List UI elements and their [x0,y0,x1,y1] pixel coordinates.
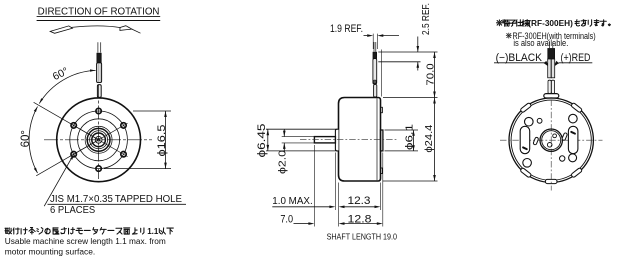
svg-text:JIS M1.7×0.35 TAPPED HOLE: JIS M1.7×0.35 TAPPED HOLE [50,194,182,205]
bolt circle [70,111,128,169]
middle: motor body side outline [339,98,381,182]
vent hole lower-right [569,154,577,162]
motor body outer circle [57,98,141,182]
dim phi6.1 arrows [413,130,415,151]
svg-text:ϕ6.45: ϕ6.45 [256,124,268,158]
vent hole upper-right [569,114,578,123]
ext lines phi6.45 [266,128,337,130]
small hole upper-left [537,118,542,123]
JP note terminals available [497,21,502,26]
leader arrow to black wire [544,62,547,65]
vertical centerline [98,85,100,180]
60deg arc upper [39,70,95,103]
middle lead-wire black tip [373,52,377,58]
case tab bottom right [381,168,383,174]
ext line wire black bottom [378,61,420,63]
left view lead-wire dashed stub [97,42,99,52]
ext line body edge up [380,50,382,97]
bearing circle thick [92,133,106,147]
ext vertical boss face [334,153,336,211]
right outer circle [509,98,593,182]
svg-text:ϕ2.0: ϕ2.0 [277,150,289,174]
tapped hole leader [44,159,71,207]
6 tapped holes on bolt circle [96,108,101,113]
ext line wire top [378,51,437,53]
ext vertical body face [338,183,340,227]
vent hole upper-left [525,117,534,126]
right vertical centerline [550,100,552,191]
left view lead-wire upper segment [97,63,102,83]
hub small hole A [553,134,557,138]
JP note: screw length limit [5,227,8,229]
svg-text:1.0 MAX.: 1.0 MAX. [272,195,312,207]
right wires black segment [548,49,555,60]
vent hole lower-left [523,159,532,168]
svg-text:is also available.: is also available. [513,38,568,48]
hub circle mid thin [90,131,108,149]
rotation arrow (curved double outline arrow) [50,26,72,33]
svg-text:Usable machine screw length 1.: Usable machine screw length 1.1 max. fro… [5,236,166,246]
svg-text:(−)BLACK: (−)BLACK [496,52,543,64]
dim phi16.5 arrow top [164,111,167,117]
svg-text:ϕ16.5: ϕ16.5 [156,125,168,157]
JP note terminals available 2 [576,20,579,26]
ext vertical rear boss tip [382,153,384,227]
dim 1.9 lines [364,35,368,37]
ext vertical body rear [380,183,382,211]
dim 1.0 max leader [272,206,329,208]
hub outer circle [540,129,562,151]
hole spokes at 60 deg intervals [70,123,128,157]
60deg arc lower [29,107,37,173]
left view lead-wire black segment [97,53,101,62]
svg-text:ϕ24.4: ϕ24.4 [423,124,435,152]
hub circle thin outer [85,126,112,153]
left brush slot [520,126,530,153]
arc arrowhead lower at 150 spoke [34,107,38,112]
left view lead-wire lower stub [97,85,101,98]
dim phi6.45 line [267,129,269,151]
left slot dash [522,146,528,150]
svg-text:60°: 60° [20,130,32,147]
dim 2.5 lines+arrows [417,37,419,53]
horizontal centerline [44,139,152,141]
right wires dashed stub [549,42,551,48]
brush lug left [533,137,539,145]
tapped hole leader arrowhead [70,154,74,159]
svg-text:2.5 REF.: 2.5 REF. [421,3,432,35]
right inner circle [511,100,591,180]
dim 12.8 [344,223,377,225]
svg-text:motor mounting surface.: motor mounting surface. [5,246,95,256]
dim phi16.5 line [165,111,167,169]
dim 12.3 [344,206,374,208]
svg-text:(RF-300EH): (RF-300EH) [528,18,573,28]
ext line body top right [383,97,438,99]
hub circle thick [87,128,110,151]
middle lead-wire dashed stub [373,42,375,52]
right slot dash [570,131,576,135]
150deg spoke extension [34,102,99,140]
dim phi24.4 line [434,98,436,182]
front bearing boss [335,129,338,151]
inner case circle [78,119,120,161]
middle lead-wire lower stub [374,84,377,97]
hub inner circle [542,131,561,150]
svg-text:SHAFT LENGTH 19.0: SHAFT LENGTH 19.0 [327,232,398,241]
dim 1.9 arrows [367,34,373,37]
case crimp tabs on rim [571,102,583,112]
small hole lower-mid [560,156,565,161]
hub small hole B [547,143,552,148]
svg-text:1.1: 1.1 [147,227,159,236]
middle horizontal centerline [300,139,398,141]
case tab top right [381,107,383,112]
title underline [37,15,161,17]
middle lead-wire capsule [373,59,377,85]
svg-text:12.8: 12.8 [348,213,372,225]
right horizontal centerline [500,139,603,141]
svg-text:(+)RED: (+)RED [561,52,591,64]
dim 70.0 line [434,52,436,98]
210deg spoke extension [36,140,98,176]
dim 1.9 ext lines [372,34,374,49]
ext line body bottom right [383,180,438,182]
dim phi2.0 arrows [283,129,285,136]
right brush slot [568,126,578,153]
endbell seam line [376,98,378,180]
svg-text:70.0: 70.0 [425,63,436,86]
dim phi16.5 extension lines [133,110,171,112]
svg-text:12.3: 12.3 [348,195,371,207]
leader arrow to red wire [557,62,560,65]
right wires lower segment [548,80,551,93]
center dot circle [97,138,100,141]
EN note with-terminals [507,34,511,38]
svg-text:ϕ6.1: ϕ6.1 [404,124,416,150]
right wires upper segment [548,59,551,78]
svg-text:1.9 REF.: 1.9 REF. [330,23,363,35]
shaft side view [314,137,335,143]
ext vertical shaft tip [313,145,315,227]
rear boss [381,130,383,151]
dim phi16.5 arrow bottom [164,163,167,169]
shaft edge extension lines [282,136,314,138]
arc arrowhead upper at 150 spoke [39,98,43,103]
svg-text:6 PLACES: 6 PLACES [50,205,96,216]
arc arrowhead near shaft [90,69,96,71]
shaft circle [95,136,102,143]
svg-text:7.0: 7.0 [280,213,293,225]
rim tab top [544,94,559,98]
arc arrowhead at 210 spoke [34,168,38,173]
ext lines phi6.1 [385,129,419,131]
brush lug right [562,132,568,140]
